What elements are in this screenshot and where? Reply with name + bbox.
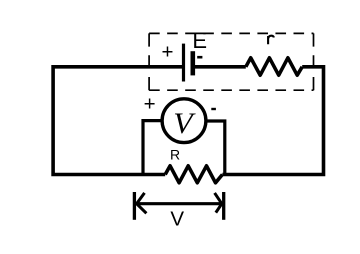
svg-text:V: V: [170, 207, 184, 230]
svg-text:+: +: [162, 40, 174, 63]
svg-text:V: V: [173, 107, 196, 140]
svg-text:+: +: [144, 92, 156, 115]
svg-text:E: E: [192, 28, 207, 53]
svg-text:R: R: [170, 147, 180, 163]
